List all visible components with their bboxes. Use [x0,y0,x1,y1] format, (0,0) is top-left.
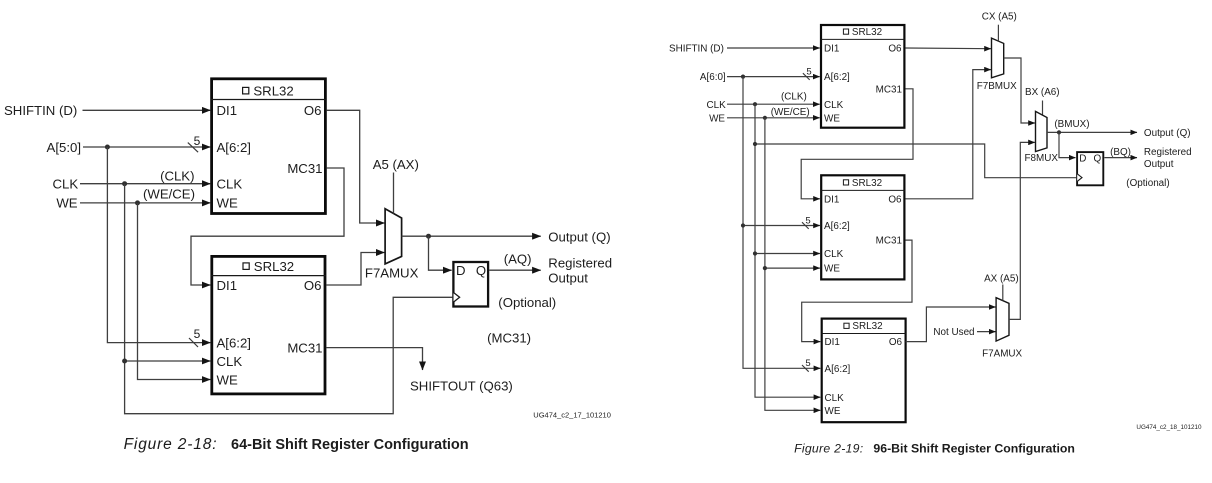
svg-text:(BQ): (BQ) [1110,147,1131,158]
bus width slash 5 at U5 [802,358,811,372]
svg-text:MC31: MC31 [876,236,903,247]
junction on F8MUX output [1057,130,1061,134]
junction on A[6:0] wire [741,75,745,79]
SRL32 block U1 (top, fig 2-18) [211,79,326,214]
svg-text:WE: WE [825,406,841,417]
svg-text:Q: Q [476,263,486,278]
select wire AX to F7AMUX [1002,285,1004,301]
svg-text:WE: WE [217,372,238,387]
wire CLK to FF clock fig2-19 [755,144,1076,178]
flip-flop FF (fig 2-19) [1077,152,1103,185]
svg-text:(BMUX): (BMUX) [1054,119,1089,130]
wire FF Q to Registered Output [489,269,541,271]
select wire A5 (AX) to F7AMUX [393,173,395,214]
wire U4 MC31 to U5 DI1 [802,240,912,342]
svg-text:A[6:2]: A[6:2] [217,335,251,350]
caption Figure 2-19 [794,442,1075,456]
wire F7AMUX output to F8MUX input 1 [1009,142,1035,319]
junction on CLK vertical [122,359,127,364]
bus width slash 5 at U4 [802,215,811,229]
wire A vertical to U2 A[6:2] [107,147,210,343]
svg-text:SRL32: SRL32 [852,178,882,189]
SRL32 block U4 (middle, fig 2-19) [821,175,905,279]
wire U2 MC31 to SHIFTOUT [326,348,422,370]
bus width slash 5 at U1 A[6:2] [188,134,201,152]
wire SHIFTIN to U1 DI1 [83,109,211,111]
svg-text:5: 5 [805,215,810,226]
junction on WE wire fig2-19 [763,116,767,120]
svg-text:DI1: DI1 [824,194,840,205]
svg-text:(WE/CE): (WE/CE) [143,186,195,201]
svg-text:A[6:2]: A[6:2] [824,72,850,83]
svg-text:64-Bit Shift Register Configur: 64-Bit Shift Register Configuration [231,437,469,453]
wire WE vertical to U2 WE [138,203,211,380]
svg-text:WE: WE [824,113,840,124]
junction CLK at FF run [753,142,757,146]
svg-text:SHIFTOUT (Q63): SHIFTOUT (Q63) [410,379,513,394]
svg-text:(WE/CE): (WE/CE) [771,107,810,118]
wire FF Q to Registered Output fig2-19 [1104,157,1137,159]
wire WE to U1 WE [80,202,210,204]
bus width slash 5 at U3 [803,66,812,80]
svg-text:F7AMUX: F7AMUX [365,266,419,281]
svg-text:Output: Output [1144,159,1174,170]
svg-text:(MC31): (MC31) [487,330,531,345]
svg-text:CX (A5): CX (A5) [982,11,1017,22]
svg-text:WE: WE [824,264,840,275]
wire CLK branch to U4 CLK [755,253,820,255]
svg-text:D: D [1079,153,1086,164]
junction on A[5:0] wire [105,145,110,150]
svg-text:WE: WE [56,196,77,211]
svg-text:(AQ): (AQ) [504,251,532,266]
wire junction to FF D input [429,236,452,270]
junction on F7AMUX output [426,234,431,239]
mux F7BMUX [992,38,1004,78]
svg-text:A5 (AX): A5 (AX) [373,157,419,172]
select wire BX to F8MUX [1042,101,1044,117]
wire U1 MC31 feedback to U2 DI1 [191,168,344,285]
svg-text:CLK: CLK [706,100,726,111]
svg-text:Output: Output [548,270,588,285]
svg-text:Figure 2-19:: Figure 2-19: [794,442,863,456]
svg-text:96-Bit Shift Register Configur: 96-Bit Shift Register Configuration [873,442,1075,456]
wire Not Used to F7AMUX input 1 [977,331,996,333]
svg-text:UG474_c2_17_101210: UG474_c2_17_101210 [533,411,611,420]
svg-text:Output (Q): Output (Q) [548,229,610,244]
wire U5 O6 to F7AMUX input 0 [906,307,996,342]
svg-text:A[6:2]: A[6:2] [825,364,851,375]
svg-text:SHIFTIN (D): SHIFTIN (D) [4,103,77,118]
svg-text:A[6:0]: A[6:0] [700,72,726,83]
wire F7AMUX output to Output (Q) [402,235,541,237]
wire U2 O6 to F7AMUX input 1 [326,253,384,286]
svg-text:5: 5 [194,134,201,148]
svg-text:A[5:0]: A[5:0] [47,140,81,155]
SRL32 block U5 (bottom, fig 2-19) [821,319,905,423]
svg-text:F7BMUX: F7BMUX [977,81,1017,92]
bus width slash 5 at U2 A[6:2] [189,327,201,347]
svg-text:Figure 2-18:: Figure 2-18: [124,436,218,453]
wire junction to FF D input fig2-19 [1059,132,1076,157]
svg-text:CLK: CLK [825,393,845,404]
SRL32 block U2 (bottom, fig 2-18) [211,256,326,394]
wire WE vertical fig2-19 [765,118,820,411]
wire A branch to U4 A[6:2] [743,225,820,227]
wire WE to U3 WE [727,117,820,119]
svg-text:F7AMUX: F7AMUX [982,349,1022,360]
svg-text:SRL32: SRL32 [852,27,882,38]
wire CLK vertical fig2-19 [755,104,820,397]
wire U1 O6 to F7AMUX input 0 [327,110,385,223]
svg-text:MC31: MC31 [287,161,322,176]
svg-text:Not Used: Not Used [933,327,974,338]
svg-text:Registered: Registered [1144,147,1192,158]
svg-text:BX (A6): BX (A6) [1025,87,1060,98]
SRL32 block U3 (top, fig 2-19) [821,25,905,128]
svg-text:5: 5 [194,327,201,341]
svg-text:Registered: Registered [548,256,612,271]
wire A[6:0] to U3 A[6:2] [727,76,820,78]
svg-text:WE: WE [217,196,238,211]
caption Figure 2-18 [124,436,469,453]
svg-text:MC31: MC31 [876,84,903,95]
wire SHIFTIN to U3 DI1 [727,47,820,49]
svg-text:O6: O6 [304,103,322,118]
wire CLK to U3 CLK [727,103,820,105]
wire F7BMUX output to F8MUX input 0 [1004,58,1035,123]
svg-text:(CLK): (CLK) [781,92,807,103]
svg-text:SRL32: SRL32 [852,321,882,332]
svg-text:UG474_c2_18_101210: UG474_c2_18_101210 [1136,424,1202,431]
svg-text:F8MUX: F8MUX [1025,153,1059,164]
svg-text:MC31: MC31 [287,340,322,355]
junction on CLK wire fig2-19 [753,102,757,106]
wire A[5:0] to U1 A[6:2] [83,146,210,148]
svg-text:DI1: DI1 [217,103,238,118]
svg-text:5: 5 [805,358,810,369]
mux F7AMUX fig2-19 [996,298,1009,341]
flip-flop FF (fig 2-18) [453,262,488,307]
wire U3 O6 to F7BMUX input 0 [905,47,991,50]
svg-text:SHIFTIN (D): SHIFTIN (D) [669,44,724,55]
svg-text:DI1: DI1 [824,44,840,55]
mux F7AMUX [385,209,402,264]
svg-text:D: D [456,263,466,278]
svg-text:AX (A5): AX (A5) [984,273,1019,284]
svg-text:O6: O6 [889,337,903,348]
svg-text:DI1: DI1 [217,278,238,293]
svg-text:(CLK): (CLK) [160,168,194,183]
svg-text:Output (Q): Output (Q) [1144,128,1191,139]
svg-text:O6: O6 [304,278,322,293]
svg-text:SRL32: SRL32 [253,83,293,98]
label Registered Output fig2-19 [1144,147,1192,170]
svg-text:A[6:2]: A[6:2] [824,221,850,232]
junction on CLK wire [122,181,127,186]
junction WE vertical at U4 [763,266,767,270]
mux F8MUX [1036,111,1048,151]
svg-text:(Optional): (Optional) [498,295,556,310]
svg-text:O6: O6 [888,44,902,55]
svg-text:CLK: CLK [217,177,243,192]
label Registered Output [548,256,612,286]
svg-text:CLK: CLK [217,354,243,369]
svg-text:WE: WE [709,113,725,124]
svg-text:5: 5 [806,66,811,77]
svg-text:CLK: CLK [53,177,79,192]
svg-text:DI1: DI1 [825,337,841,348]
wire F8MUX output to Output (Q) [1047,131,1137,133]
wire WE branch to U4 WE [765,267,820,269]
svg-text:A[6:2]: A[6:2] [217,140,251,155]
wire CLK vertical [125,184,453,414]
wire CLK to U1 CLK [80,183,210,185]
wire A vertical to U4/U5 A[6:2] [743,77,820,369]
svg-text:(Optional): (Optional) [1126,178,1169,189]
select wire CX to F7BMUX [997,25,999,42]
svg-text:CLK: CLK [824,249,844,260]
junction on WE wire [135,200,140,205]
wire U4 O6 to F7BMUX input 1 [905,70,991,199]
svg-text:CLK: CLK [824,100,844,111]
wire CLK branch to U2 CLK [125,360,211,362]
svg-text:SRL32: SRL32 [254,259,294,274]
wire U3 MC31 to U4 DI1 [801,89,913,199]
junction A vertical at U4 [741,223,745,227]
junction CLK vertical at U4 [753,251,757,255]
svg-text:Q: Q [1093,153,1101,164]
svg-text:O6: O6 [888,194,902,205]
